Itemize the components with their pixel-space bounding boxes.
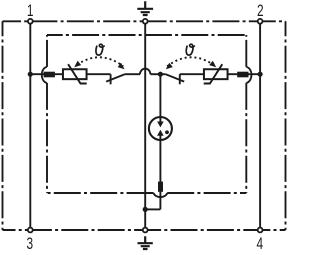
svg-text:2: 2	[257, 2, 264, 20]
earth symbol (top, inverted)	[137, 1, 153, 15]
GDT gas-filled indicator dot	[165, 130, 169, 134]
plug pin contact bar (left)	[44, 72, 55, 78]
varistor RV2 diagonal stroke	[204, 64, 223, 83]
arrowhead onto varistor RV1	[74, 61, 81, 68]
label ϑ (left thermal trip)	[96, 44, 104, 55]
plug pin contact bar (right)	[237, 72, 248, 78]
terminal PE bottom	[143, 228, 148, 233]
terminal 2	[258, 19, 263, 24]
junction dot at GDT top node	[158, 72, 163, 77]
varistor RV2 (right) body	[204, 69, 228, 79]
wire: switch to varistor RV2	[180, 73, 203, 75]
wire: varistor RV2 to right node	[228, 73, 260, 75]
terminal 3	[28, 228, 33, 233]
terminal PE top	[143, 19, 148, 24]
thermal disconnect switch (right): blade	[166, 74, 185, 81]
inner protection-module boundary (dash-dot)	[47, 35, 246, 193]
thermal disconnect switch (left): blade	[106, 74, 125, 81]
GDT upper electrode arrow (pointing down)	[157, 122, 164, 128]
thermal disconnect switch (left): fixed contact stub	[110, 74, 112, 84]
wire: bottom contact to PE conductor	[145, 208, 160, 210]
junction dot on left conductor	[28, 72, 33, 77]
terminal 4	[258, 228, 263, 233]
socket arc (module plug-in contact, bottom)	[154, 193, 168, 197]
junction dot on right conductor	[258, 72, 263, 77]
label ϑ (right thermal trip)	[186, 44, 194, 55]
arrowhead onto right switch blade	[166, 63, 173, 69]
wire: GDT node down into tube	[159, 74, 161, 122]
wire: switch to centre crossing	[125, 73, 140, 75]
GDT lower electrode arrow (pointing up)	[157, 130, 164, 136]
wire: GDT node to right switch blade pivot	[160, 73, 165, 75]
wire: terminal 1 to terminal 3 vertical conductor	[29, 21, 31, 230]
gas discharge tube F1 body	[149, 117, 172, 140]
socket arc (module plug-in contact, right)	[246, 67, 251, 83]
varistor RV1 (left) body	[63, 69, 87, 79]
svg-text:1: 1	[27, 2, 34, 20]
thermal trip arc ϑ (right, dotted with arrows)	[167, 57, 213, 66]
earth symbol (bottom)	[138, 236, 153, 249]
wire: terminal 2 to terminal 4 vertical conductor	[259, 21, 261, 230]
svg-text:4: 4	[256, 235, 263, 253]
arrowhead onto left switch blade	[118, 63, 125, 69]
thermal trip arc ϑ (left, dotted with arrows)	[77, 57, 123, 66]
wire: varistor RV1 to disconnect switch	[87, 73, 110, 75]
wire hop over PE conductor (no connection)	[140, 69, 150, 75]
junction dot on PE conductor bottom	[143, 207, 148, 212]
wire: centre PE conductor (top earth to bottom earth)	[144, 21, 146, 230]
socket arc (module plug-in contact, left)	[42, 67, 47, 83]
svg-text:3: 3	[26, 235, 33, 253]
plug pin contact bar (bottom)	[158, 182, 163, 192]
wire: left branch from node to varistor	[30, 73, 62, 75]
varistor RV1 diagonal stroke	[68, 64, 87, 83]
arrowhead onto varistor RV2	[209, 61, 216, 68]
wire: tube down to bottom plug contact	[159, 135, 161, 209]
terminal 1	[28, 19, 33, 24]
thermal disconnect switch (right): fixed contact stub	[179, 74, 181, 84]
outer device boundary (dash-dot frame)	[3, 21, 286, 230]
wire: hop to GDT node	[150, 73, 160, 75]
